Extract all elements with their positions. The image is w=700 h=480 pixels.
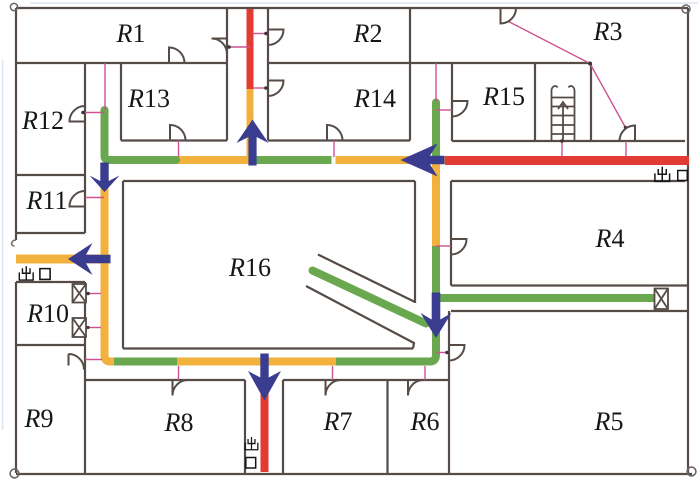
pink link R3 bottom door	[625, 141, 627, 157]
junction dot R14 door	[264, 86, 268, 90]
svg-text:R12: R12	[21, 106, 64, 135]
pink link R3 door diagonal	[509, 22, 626, 128]
svg-text:R9: R9	[24, 404, 54, 433]
svg-text:R6: R6	[410, 407, 440, 436]
pink link R7 door	[332, 366, 334, 380]
wall R13 left	[120, 63, 122, 141]
wall R12 bottom	[16, 174, 85, 176]
wall R12 R11 right	[84, 63, 86, 233]
door R1 east	[212, 39, 228, 55]
junction dot R5 door	[445, 351, 449, 355]
window W3 exit right corridor	[655, 289, 669, 310]
junction dot stairs	[560, 139, 564, 143]
pink link R15 door	[436, 109, 452, 111]
wall R1-R12 divider y63	[16, 62, 227, 64]
faint scan edge top	[30, 2, 698, 4]
wall R7 R6 top	[283, 379, 449, 381]
pink link R4 door	[436, 245, 451, 247]
path yellow bottom middle segment	[177, 358, 336, 366]
wall R5 top	[451, 310, 688, 312]
svg-text:R1: R1	[116, 19, 146, 48]
wall R4 bottom	[451, 284, 688, 286]
wall corridor right x268	[267, 8, 269, 141]
path yellow left exit	[16, 255, 110, 264]
wall outer right	[687, 8, 689, 474]
wall R8 top	[85, 379, 245, 381]
exit label left 出口	[19, 266, 33, 280]
arrow up top corridor	[237, 120, 269, 166]
pink link R13 bottom door	[178, 141, 180, 158]
path yellow top vertical	[247, 86, 254, 161]
path red bottom exit	[261, 380, 269, 472]
wall diagonal lower R16	[306, 286, 414, 349]
svg-text:R8: R8	[164, 408, 194, 437]
door R5	[449, 345, 465, 361]
wall outer left upper	[15, 8, 17, 240]
wall outer top	[16, 7, 688, 9]
pink link window W1	[85, 293, 101, 295]
junction dot R1 door	[227, 45, 231, 49]
wall R4 left	[450, 181, 452, 286]
arrow down right corridor	[421, 293, 452, 339]
wall R4 top	[451, 180, 685, 182]
door R7	[326, 380, 342, 396]
path green bottom left segment	[114, 358, 178, 366]
path green main corridor mid segment	[253, 156, 332, 164]
path green diagonal in R16	[313, 271, 427, 324]
door R6	[408, 380, 424, 396]
door R8	[173, 380, 189, 396]
door R1-R13	[169, 48, 185, 64]
faint scan edge left	[2, 60, 4, 430]
door R9	[69, 354, 85, 370]
door R2	[268, 30, 284, 46]
wall R8 right	[244, 380, 246, 473]
path red main corridor to right exit	[445, 156, 689, 165]
window W1 elevator R10	[73, 284, 87, 303]
wall corridor left x227	[226, 8, 228, 141]
wall stairs left	[534, 63, 536, 141]
junction dot window W1	[86, 292, 90, 296]
path green right vertical top	[432, 103, 440, 158]
pink link stairs to corridor	[561, 141, 563, 157]
wall R15 left	[451, 63, 453, 141]
arrow down left corridor	[90, 163, 120, 193]
wall R16 bottom	[123, 347, 413, 349]
wall stairs right	[590, 63, 592, 141]
svg-text:R3: R3	[593, 17, 623, 46]
door R4	[451, 239, 467, 255]
door R12	[70, 106, 86, 122]
pink link R12 door	[85, 112, 104, 114]
path green R4 corridor to window exit	[436, 294, 656, 302]
wall R14 bottom	[268, 139, 410, 141]
svg-text:R10: R10	[26, 299, 69, 328]
pink link R6 door	[424, 366, 426, 380]
svg-text:R13: R13	[127, 84, 170, 113]
wall end curl left exit	[12, 240, 16, 246]
wall R16 left	[122, 181, 124, 349]
junction dot R2 door	[264, 32, 268, 36]
wall R2 R14 right	[409, 8, 411, 141]
door R14 bottom	[327, 125, 343, 141]
door R3 bottom	[620, 126, 636, 142]
wall diagonal upper R16	[318, 255, 415, 303]
junction dot R12 door	[81, 111, 85, 115]
pink link R14 west door	[253, 87, 268, 89]
pink link R1 door to corridor	[104, 63, 106, 110]
path green main corridor from left turn	[105, 110, 177, 160]
pink link R11 door	[85, 197, 104, 199]
pink link R9 door	[85, 359, 102, 361]
pink link R14 bottom door	[333, 141, 335, 158]
wall R7 R6 divider	[386, 380, 388, 473]
svg-text:R4: R4	[595, 224, 625, 253]
junction dot window W2	[86, 326, 89, 329]
path yellow main corridor left segment	[172, 156, 258, 164]
svg-text:R7: R7	[323, 407, 353, 436]
svg-text:R16: R16	[228, 253, 271, 282]
path yellow main corridor right segment	[336, 156, 447, 164]
wall R7 left	[282, 380, 284, 473]
wall R10 R9 R8 left	[84, 282, 86, 473]
door R11	[70, 191, 86, 207]
path green bottom right with turn up	[336, 245, 436, 362]
exit label bottom vertical 出口	[245, 437, 258, 450]
exit label right 出口	[655, 167, 670, 182]
wall R15 stairs R3 bottom	[452, 140, 685, 142]
path yellow right vertical corridor	[432, 164, 440, 246]
wall R11 bottom	[16, 232, 85, 234]
wall R10 top	[16, 281, 85, 283]
door R15	[452, 101, 468, 117]
wall R5 R6 left	[448, 311, 450, 473]
path red top vertical	[247, 9, 254, 89]
wall outer bottom	[16, 473, 692, 475]
door R3 top	[501, 8, 517, 24]
wall R2-R14 divider y63	[268, 62, 591, 64]
wall outer left lower	[15, 282, 17, 473]
svg-text:R2: R2	[353, 19, 383, 48]
arrow left main corridor	[401, 144, 445, 177]
svg-text:R14: R14	[353, 84, 396, 113]
pink link R1 door east	[227, 46, 250, 48]
wall R10 bottom	[16, 344, 85, 346]
svg-text:R15: R15	[482, 82, 525, 111]
door R14 west	[268, 81, 284, 97]
door R13 bottom	[170, 125, 186, 141]
pink link corridor top x436	[435, 63, 437, 102]
corner curl top-right	[682, 5, 690, 13]
path yellow left vertical corridor	[105, 163, 116, 362]
pink link window W2	[85, 327, 101, 329]
stairs ladder	[551, 86, 574, 141]
arrow left exit west	[68, 243, 111, 275]
pink link R2 door	[253, 33, 268, 35]
svg-text:R11: R11	[26, 186, 68, 215]
svg-text:R5: R5	[594, 407, 624, 436]
pink link R5 door	[436, 352, 449, 354]
junction dot R3 door	[624, 126, 628, 130]
wall R16 top	[123, 180, 415, 182]
wall R16 right upper	[414, 181, 416, 303]
corner circle bottom-left	[10, 469, 19, 478]
pink link R8 door	[178, 366, 180, 380]
junction dot R3 corner	[588, 62, 592, 66]
corner circle bottom-right	[687, 467, 696, 476]
window W2 elevator R10	[73, 318, 87, 337]
arrow down bottom exit	[248, 354, 281, 401]
corner curl top-left	[10, 3, 17, 10]
wall R13 bottom	[121, 139, 227, 141]
